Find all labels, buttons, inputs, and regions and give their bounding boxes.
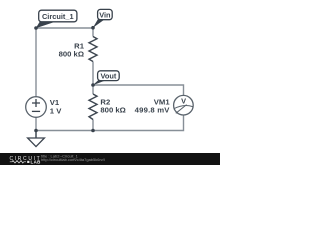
svg-text:1 V: 1 V (50, 106, 62, 115)
wire R1 bottom lead to Vout node (92, 62, 94, 86)
node Vout junction dot (91, 83, 95, 87)
wire R2 bottom lead (92, 120, 94, 131)
svg-text:Vin: Vin (99, 10, 111, 19)
wire left vertical from node A to V1 top (35, 28, 37, 97)
svg-text:800 kΩ: 800 kΩ (100, 106, 125, 115)
svg-text:499.8 mV: 499.8 mV (135, 105, 171, 114)
wire top horizontal Vin net (36, 27, 93, 29)
node Vin junction dot (91, 26, 95, 30)
node A junction dot (Circuit_1 net) (34, 26, 38, 30)
node ground junction dot (34, 129, 38, 133)
footer logo resistor zigzag (10, 161, 26, 163)
footer logo square (27, 161, 29, 163)
voltage source V1 (26, 97, 47, 118)
label flag Vout (93, 79, 107, 85)
resistor R2 zigzag (89, 94, 97, 120)
voltmeter VM1 (174, 95, 194, 115)
label flag Vin (93, 19, 105, 28)
footer bar (0, 153, 220, 165)
resistor R1 zigzag (89, 37, 97, 62)
svg-text:800 kΩ: 800 kΩ (59, 49, 84, 58)
node R2 bottom junction dot (91, 129, 95, 133)
ground (35, 131, 37, 139)
wire R1 branch top lead (92, 28, 94, 37)
wire R2 top lead (92, 85, 94, 94)
svg-text:Circuit_1: Circuit_1 (42, 12, 74, 21)
wire Vout node to VM1 corner (93, 85, 184, 96)
wire V1 bottom to ground junction (35, 117, 37, 138)
label flag Circuit_1 (36, 21, 56, 29)
wire VM1 bottom to ground net (36, 114, 184, 130)
svg-text:V: V (181, 96, 186, 105)
svg-text:Vout: Vout (100, 72, 116, 81)
svg-text:LAB: LAB (31, 160, 41, 165)
svg-text:http://circuitlab.com/c4ta7gab: http://circuitlab.com/c4ta7gab5k6rv/l (41, 157, 105, 162)
